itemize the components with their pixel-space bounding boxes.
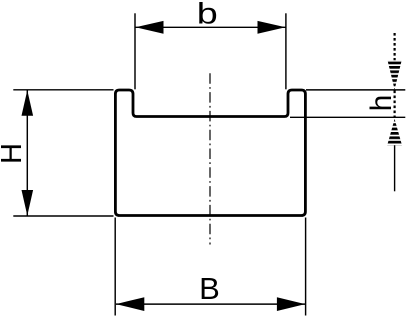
dimension b: right arrow xyxy=(258,21,286,34)
dimension B: dimension line xyxy=(116,303,305,305)
channel profile outline xyxy=(115,90,305,216)
dimension B: right arrow xyxy=(277,297,305,311)
dimension B: left arrow xyxy=(116,297,144,311)
dimension H: bottom arrow xyxy=(22,190,34,216)
dimension H: dimension line xyxy=(26,90,28,216)
svg-text:b: b xyxy=(197,0,218,31)
centerline (vertical dash-dot axis) xyxy=(209,73,211,244)
dimension h: extension line upper xyxy=(306,89,405,91)
dimension h: bottom arrow (striped) xyxy=(387,119,402,145)
dimension h: dashed tail above xyxy=(394,33,396,60)
dimension b: left arrow xyxy=(136,21,164,34)
dimension B: extension line right xyxy=(305,218,307,316)
dimension h: top arrow (striped) xyxy=(388,60,402,89)
dimension h: extension line lower xyxy=(290,116,405,118)
svg-text:H: H xyxy=(0,143,28,164)
dimension B: extension line left xyxy=(114,218,116,316)
svg-text:B: B xyxy=(199,271,220,306)
svg-text:h: h xyxy=(365,95,398,112)
dimension b: extension line left xyxy=(134,13,136,89)
dimension b: dimension line xyxy=(136,26,286,28)
dimension H: extension line top xyxy=(13,89,113,91)
dimension h: dashed segment between extension lines xyxy=(394,91,396,118)
dimension b: extension line right xyxy=(285,13,287,89)
dimension H: top arrow xyxy=(22,90,34,116)
dimension h: solid tail below xyxy=(394,145,396,191)
dimension H: extension line bottom xyxy=(13,215,113,217)
